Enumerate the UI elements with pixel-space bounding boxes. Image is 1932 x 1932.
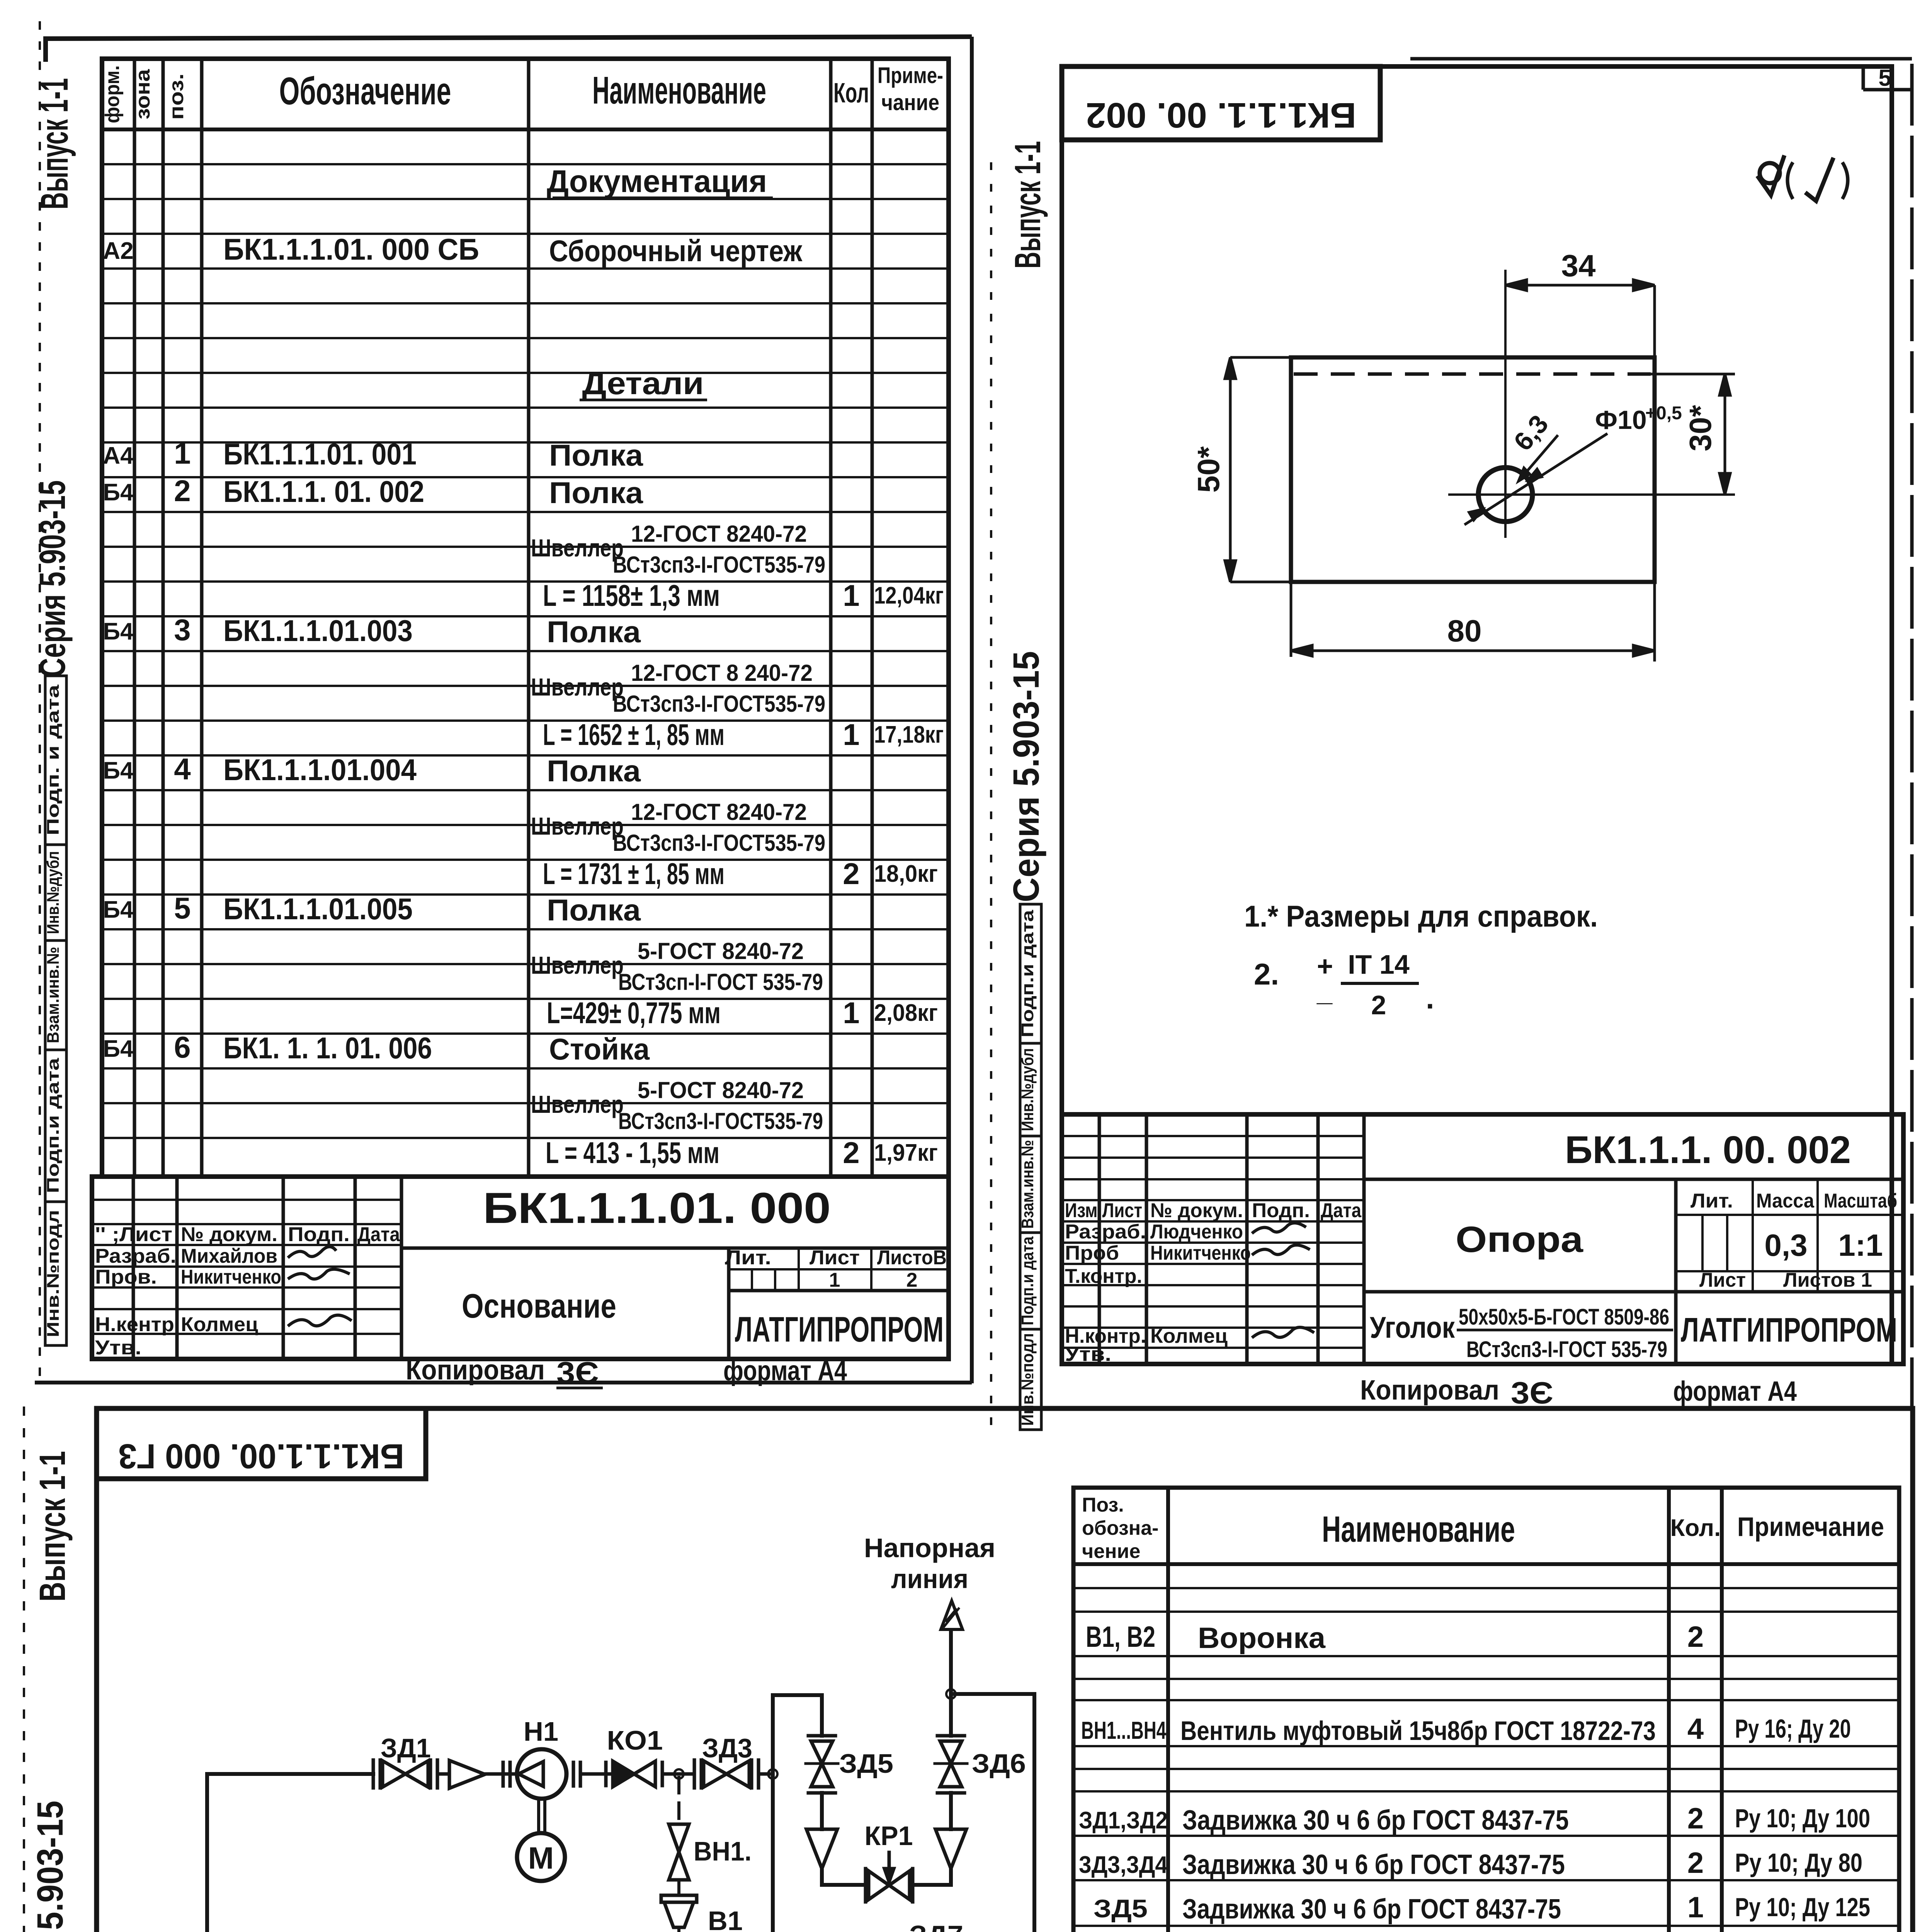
wire VN1 dashed drop — [677, 1777, 680, 1824]
svg-text:Подп. и дата: Подп. и дата — [44, 684, 63, 835]
svg-text:Взам.инв.№: Взам.инв.№ — [1018, 1140, 1037, 1229]
valve VN1 vertical — [669, 1824, 689, 1880]
svg-text:Швеллер: Швеллер — [531, 534, 624, 562]
svg-text:Ру 10; Ду 100: Ру 10; Ду 100 — [1735, 1804, 1870, 1833]
svg-text:L = 1158± 1,3 мм: L = 1158± 1,3 мм — [543, 578, 720, 612]
wire ZD1 to cone — [437, 1772, 449, 1776]
control valve KR1 — [866, 1852, 913, 1902]
svg-text:БК1.1.1.01. 001: БК1.1.1.01. 001 — [223, 437, 417, 471]
svg-text:Кол.: Кол. — [1670, 1515, 1721, 1541]
svg-text:4: 4 — [1687, 1713, 1704, 1745]
svg-text:Уголок: Уголок — [1370, 1310, 1455, 1344]
valve ZD6 vertical — [935, 1736, 967, 1793]
valve ZD1 — [373, 1760, 437, 1788]
svg-text:_: _ — [1316, 976, 1333, 1007]
svg-text:5: 5 — [174, 891, 190, 925]
svg-text:Масштаб: Масштаб — [1824, 1190, 1897, 1212]
valve ZD5 vertical — [806, 1736, 838, 1793]
svg-text:Пров.: Пров. — [95, 1266, 157, 1288]
svg-text:Полка: Полка — [547, 615, 641, 649]
svg-text:ВСт3сп3-I-ГОСТ535-79: ВСт3сп3-I-ГОСТ535-79 — [613, 691, 825, 717]
svg-text:Изм Лист: Изм Лист — [1065, 1199, 1142, 1222]
SHEET1 — [32, 21, 972, 1390]
svg-text:Подп.и дата: Подп.и дата — [1018, 1236, 1037, 1325]
wire V1 drain dashed — [260, 1927, 679, 1932]
svg-text:Проб: Проб — [1065, 1242, 1119, 1264]
svg-text:Кол: Кол — [833, 78, 869, 109]
svg-text:ЗД5: ЗД5 — [1094, 1894, 1148, 1923]
svg-text:Напорная: Напорная — [864, 1533, 995, 1563]
svg-text:Колмец: Колмец — [1150, 1325, 1228, 1347]
svg-text:Приме-: Приме- — [878, 63, 943, 88]
svg-text:№ докум.: № докум. — [1150, 1199, 1243, 1222]
svg-text:2.: 2. — [1254, 957, 1279, 991]
sheet1 bottom outer line — [35, 1381, 972, 1384]
spec table rows content — [103, 164, 944, 1170]
svg-text:Масса: Масса — [1756, 1190, 1815, 1212]
margin label boxes — [45, 676, 66, 1345]
svg-text:Н1: Н1 — [524, 1716, 558, 1747]
svg-text:Детали: Детали — [582, 366, 704, 401]
svg-text:L = 1731 ± 1, 85 мм: L = 1731 ± 1, 85 мм — [543, 857, 724, 891]
sheet1 paper edge dashed — [39, 21, 41, 1387]
svg-text:№ докум.: № докум. — [181, 1223, 277, 1246]
svg-text:3Д3,3Д4: 3Д3,3Д4 — [1079, 1852, 1168, 1878]
svg-text:Задвижка 30 ч 6 бр ГОСТ 8437-: Задвижка 30 ч 6 бр ГОСТ 8437-75 — [1182, 1894, 1561, 1925]
svg-text:Выпуск 1-1: Выпуск 1-1 — [1007, 141, 1048, 269]
svg-text:L = 1652 ± 1, 85 мм: L = 1652 ± 1, 85 мм — [543, 718, 724, 752]
svg-text:обозна-: обозна- — [1082, 1517, 1158, 1539]
svg-text:Михайлов: Михайлов — [181, 1245, 277, 1267]
svg-text:Задвижка 30 ч 6 бр ГОСТ 8437-: Задвижка 30 ч 6 бр ГОСТ 8437-75 — [1182, 1849, 1565, 1880]
svg-text:3Є: 3Є — [1511, 1376, 1553, 1410]
svg-text:Сборочный чертеж: Сборочный чертеж — [549, 234, 803, 268]
discharge arrow — [941, 1601, 963, 1629]
svg-text:Наименование: Наименование — [1322, 1509, 1515, 1550]
svg-text:2: 2 — [1371, 990, 1386, 1020]
svg-text:Инв.№подл: Инв.№подл — [1018, 1333, 1037, 1426]
svg-text:Копировал: Копировал — [1360, 1375, 1499, 1406]
wire ZD5 branch to KR1 — [822, 1869, 866, 1885]
svg-text:Выпуск 1-1: Выпуск 1-1 — [32, 1451, 73, 1602]
svg-text:1.* Размеры для справок.: 1.* Размеры для справок. — [1244, 899, 1598, 933]
svg-text:2: 2 — [1687, 1847, 1704, 1879]
wire H1 suction horizontal — [207, 1772, 373, 1776]
svg-text:Наименование: Наименование — [592, 69, 766, 112]
svg-text:Выпуск 1-1: Выпуск 1-1 — [33, 78, 76, 209]
svg-text:БК1. 1. 1. 01. 006: БК1. 1. 1. 01. 006 — [223, 1031, 432, 1065]
wire cone to pump — [485, 1772, 517, 1776]
svg-text:Полка: Полка — [549, 476, 643, 510]
svg-text:Б4: Б4 — [103, 1036, 134, 1062]
svg-text:2: 2 — [843, 1136, 859, 1170]
wire top bracket to ZD5 — [773, 1695, 822, 1736]
sheet2 title texts — [1065, 1199, 1362, 1366]
svg-text:БК1.1.1.01.005: БК1.1.1.01.005 — [223, 892, 413, 926]
svg-text:2: 2 — [174, 474, 190, 508]
svg-text:5: 5 — [1878, 65, 1891, 91]
valve ZD3 — [694, 1760, 759, 1788]
svg-text:2: 2 — [1687, 1802, 1704, 1835]
svg-text:12-ГОСТ 8240-72: 12-ГОСТ 8240-72 — [631, 521, 807, 547]
svg-text:1: 1 — [1687, 1891, 1704, 1924]
svg-text:А4: А4 — [103, 442, 134, 469]
svg-text:Полка: Полка — [547, 754, 641, 788]
svg-text:ЗД1,ЗД2: ЗД1,ЗД2 — [1079, 1807, 1168, 1834]
cone reducer H1 — [449, 1760, 485, 1788]
wire ZD6 up to node n3 — [949, 1694, 953, 1736]
svg-text:ВСт3сп-I-ГОСТ 535-79: ВСт3сп-I-ГОСТ 535-79 — [618, 969, 823, 995]
svg-text:18,0кг: 18,0кг — [874, 861, 938, 887]
svg-text:БК1.1.1.01.004: БК1.1.1.01.004 — [223, 753, 417, 787]
svg-text:ЗД1: ЗД1 — [381, 1733, 431, 1763]
svg-text:Лит.: Лит. — [725, 1247, 771, 1269]
svg-text:30*: 30* — [1683, 405, 1718, 451]
cone down left — [806, 1829, 837, 1869]
svg-text:Разраб.: Разраб. — [1065, 1221, 1146, 1243]
svg-text:Инв.№дубл: Инв.№дубл — [1018, 1048, 1037, 1131]
svg-text:БК1.1.1. 00. 002: БК1.1.1. 00. 002 — [1086, 95, 1356, 135]
svg-text:Дата: Дата — [357, 1223, 400, 1246]
wire KO1 to ZD3 — [662, 1772, 694, 1776]
svg-text:50х50х5-Б-ГОСТ 8509-86: 50х50х5-Б-ГОСТ 8509-86 — [1459, 1304, 1669, 1330]
svg-text:Ру 16; Ду 20: Ру 16; Ду 20 — [1735, 1714, 1851, 1743]
signatures sheet2 — [1252, 1223, 1314, 1338]
svg-text:М: М — [528, 1841, 554, 1875]
svg-text:1,97кг: 1,97кг — [874, 1139, 938, 1166]
sheet2 page edge top line — [1410, 57, 1912, 61]
hole centerlines — [1504, 270, 1507, 538]
sheet2 top-left stamp box — [1062, 66, 1380, 140]
svg-text:IT 14: IT 14 — [1348, 949, 1410, 980]
sheet3 top-left stamp box — [97, 1408, 426, 1479]
sheet3 paper edge dashed — [23, 1406, 25, 1932]
svg-text:Б4: Б4 — [103, 757, 134, 784]
svg-text:2,08кг: 2,08кг — [874, 1000, 938, 1026]
svg-text:БК1.1.1.01. 000: БК1.1.1.01. 000 — [483, 1184, 831, 1232]
svg-text:БК1.1.1.01.003: БК1.1.1.01.003 — [223, 614, 413, 648]
svg-text:Инв.№дубл: Инв.№дубл — [44, 851, 63, 934]
svg-text:ВСт3сп3-I-ГОСТ535-79: ВСт3сп3-I-ГОСТ535-79 — [613, 830, 825, 856]
svg-text:Лист: Лист — [1699, 1269, 1746, 1291]
svg-text:Никитченко: Никитченко — [1150, 1242, 1251, 1264]
Детали underline — [580, 399, 707, 401]
svg-text:Дата: Дата — [1321, 1199, 1362, 1222]
svg-text:Разраб.: Разраб. — [95, 1245, 176, 1267]
svg-text:4: 4 — [174, 752, 190, 786]
svg-text:Полка: Полка — [549, 438, 643, 472]
svg-text:ВСт3сп3-I-ГОСТ535-79: ВСт3сп3-I-ГОСТ535-79 — [618, 1108, 823, 1134]
svg-text:Основание: Основание — [462, 1287, 616, 1325]
svg-text:12-ГОСТ 8240-72: 12-ГОСТ 8240-72 — [631, 799, 807, 825]
leader 6,3 — [1519, 435, 1558, 481]
svg-text:Утв.: Утв. — [1065, 1343, 1111, 1366]
SHEET3 — [24, 1406, 1926, 1932]
wire KR1 to right cone — [913, 1869, 951, 1885]
svg-text:.: . — [1426, 981, 1434, 1015]
svg-text:Серия 5.903-15: Серия 5.903-15 — [1006, 651, 1047, 902]
svg-text:ЛАТГИПРОПРОМ: ЛАТГИПРОПРОМ — [1681, 1311, 1897, 1349]
svg-text:Подп.и дата: Подп.и дата — [1018, 910, 1037, 1037]
svg-text:Подп.и дата: Подп.и дата — [44, 1058, 63, 1193]
sheet1 right frame line — [970, 37, 974, 1383]
wire suction main vertical — [205, 1774, 209, 1932]
svg-text:Людченко: Людченко — [1150, 1221, 1243, 1243]
wire trunk vertical — [771, 1695, 775, 1932]
svg-text:Швеллер: Швеллер — [531, 951, 624, 979]
check valve KO1 — [606, 1761, 662, 1787]
SCHEMATIC — [144, 1533, 1034, 1932]
svg-text:1: 1 — [843, 718, 859, 752]
svg-text:поз.: поз. — [165, 73, 188, 120]
svg-text:Колмец: Колмец — [181, 1313, 258, 1336]
svg-text:Воронка: Воронка — [1198, 1622, 1326, 1655]
spec table column lines — [134, 59, 872, 1177]
svg-text:1:1: 1:1 — [1838, 1228, 1883, 1262]
svg-text:Инв.№подл: Инв.№подл — [44, 1210, 63, 1337]
svg-text:А2: А2 — [103, 238, 133, 264]
sheet1 top frame line — [46, 37, 972, 62]
svg-text:Опора: Опора — [1456, 1219, 1583, 1260]
node n1 (to VN1) — [674, 1769, 684, 1779]
svg-text:БК1.1.1. 01. 002: БК1.1.1. 01. 002 — [223, 474, 424, 509]
svg-text:Подп.: Подп. — [1252, 1199, 1310, 1222]
svg-text:12-ГОСТ 8 240-72: 12-ГОСТ 8 240-72 — [631, 660, 813, 686]
dim 80 — [1291, 582, 1655, 662]
svg-text:Никитченко: Никитченко — [181, 1266, 281, 1288]
wire VN1 to funnel — [677, 1880, 680, 1895]
hole circle — [1478, 468, 1532, 522]
svg-text:ЗД5: ЗД5 — [839, 1748, 893, 1779]
svg-text:Примечание: Примечание — [1737, 1512, 1884, 1542]
svg-text:Вентиль муфтовый 15ч8бр ГОСТ 1: Вентиль муфтовый 15ч8бр ГОСТ 18722-73 — [1180, 1716, 1656, 1746]
svg-text:В1, В2: В1, В2 — [1086, 1621, 1155, 1653]
pump H1 flange left — [502, 1762, 505, 1786]
sheet1 title texts — [95, 1223, 400, 1359]
wire discharge up — [949, 1630, 953, 1694]
pump H1 flange right — [572, 1762, 575, 1786]
shaft H1-M — [537, 1799, 540, 1833]
wire pump H1 to KO1 — [580, 1772, 613, 1776]
pump H1 — [517, 1749, 566, 1799]
svg-text:чение: чение — [1082, 1540, 1140, 1563]
roughness mark top right — [1757, 155, 1848, 201]
sheet number box 5 — [1863, 66, 1912, 90]
spec table header bottom — [102, 128, 949, 131]
sheet2 title block — [1062, 1114, 1903, 1364]
svg-text:КО1: КО1 — [607, 1725, 663, 1755]
svg-text:Стойка: Стойка — [549, 1032, 650, 1066]
svg-text:Обозначение: Обозначение — [279, 70, 451, 113]
SHEET2 — [991, 59, 1912, 1430]
sheet2 paper edge dashed — [990, 162, 992, 1426]
svg-text:зона: зона — [132, 69, 154, 119]
svg-text:Швеллер: Швеллер — [531, 812, 624, 840]
svg-text:80: 80 — [1447, 614, 1482, 648]
svg-text:Ру 10; Ду 125: Ру 10; Ду 125 — [1735, 1893, 1870, 1922]
svg-text:1: 1 — [843, 578, 859, 612]
svg-text:Швеллер: Швеллер — [531, 1090, 624, 1118]
svg-text:'' ;Лист: '' ;Лист — [95, 1223, 172, 1246]
svg-text:5-ГОСТ 8240-72: 5-ГОСТ 8240-72 — [638, 938, 804, 964]
sheet3 frame — [97, 1408, 1913, 1932]
svg-text:Подп.: Подп. — [288, 1223, 350, 1246]
spec table outer border — [102, 59, 949, 1177]
svg-text:50*: 50* — [1191, 446, 1226, 493]
dim 50* — [1225, 357, 1291, 582]
svg-text:ЛистоВ: ЛистоВ — [877, 1247, 947, 1269]
svg-text:КР1: КР1 — [865, 1821, 913, 1851]
svg-text:1: 1 — [829, 1269, 840, 1291]
svg-text:ЗД3: ЗД3 — [702, 1733, 752, 1763]
node n3 — [946, 1689, 956, 1699]
svg-text:линия: линия — [891, 1564, 968, 1594]
svg-text:ВН1.: ВН1. — [694, 1836, 752, 1866]
svg-text:Серия 5.903-15: Серия 5.903-15 — [30, 1801, 71, 1932]
svg-text:Поз.: Поз. — [1082, 1494, 1124, 1516]
svg-text:Лит.: Лит. — [1690, 1190, 1733, 1212]
svg-text:0,3: 0,3 — [1764, 1228, 1807, 1262]
svg-text:3Є: 3Є — [556, 1355, 599, 1390]
wire ZD5 to cone — [820, 1793, 824, 1829]
spec table row lines — [102, 164, 949, 1138]
sheet2 frame — [1062, 66, 1892, 1364]
svg-text:БК1.1.1.00. 000 Г3: БК1.1.1.00. 000 Г3 — [118, 1437, 404, 1475]
svg-text:ВСт3сп3-I-ГОСТ 535-79: ВСт3сп3-I-ГОСТ 535-79 — [1466, 1337, 1667, 1362]
svg-text:Серия 5.903-15: Серия 5.903-15 — [32, 480, 73, 677]
sheet2 outer right line — [1910, 64, 1914, 1406]
wire right bypass top — [951, 1694, 1034, 1932]
svg-text:Копировал: Копировал — [406, 1355, 545, 1386]
svg-text:1: 1 — [843, 996, 859, 1030]
dim 34 — [1505, 280, 1655, 357]
svg-text:В1: В1 — [708, 1906, 743, 1932]
svg-text:L = 413 - 1,55 мм: L = 413 - 1,55 мм — [546, 1136, 719, 1170]
svg-text:Листов 1: Листов 1 — [1783, 1269, 1872, 1291]
svg-text:1: 1 — [174, 436, 190, 470]
svg-text:34: 34 — [1561, 248, 1596, 283]
wire ZD3 to trunk — [759, 1772, 773, 1776]
svg-text:чание: чание — [881, 90, 939, 115]
svg-text:ЗД6: ЗД6 — [972, 1748, 1026, 1779]
svg-text:+0,5: +0,5 — [1645, 403, 1682, 423]
Документация underline — [553, 197, 773, 199]
svg-text:12,04кг: 12,04кг — [874, 582, 944, 609]
svg-text:формат А4: формат А4 — [1673, 1376, 1797, 1407]
svg-text:Б4: Б4 — [103, 479, 134, 506]
part drawing: plate rectangle — [1291, 357, 1655, 582]
cone down right — [935, 1829, 966, 1869]
svg-text:L=429± 0,775 мм: L=429± 0,775 мм — [547, 996, 721, 1030]
svg-text:Полка: Полка — [547, 893, 641, 927]
svg-text:БК1.1.1. 00. 002: БК1.1.1. 00. 002 — [1565, 1128, 1851, 1172]
svg-text:17,18кг: 17,18кг — [874, 721, 944, 748]
sheet2 margin label boxes — [1020, 904, 1041, 1430]
svg-text:форм.: форм. — [101, 65, 124, 123]
leader ф10 — [1464, 434, 1607, 525]
svg-text:Ру 10; Ду 80: Ру 10; Ду 80 — [1735, 1848, 1862, 1878]
svg-text:Лист: Лист — [810, 1247, 860, 1269]
svg-text:ВСт3сп3-I-ГОСТ535-79: ВСт3сп3-I-ГОСТ535-79 — [613, 552, 825, 578]
svg-text:Б4: Б4 — [103, 896, 134, 923]
svg-text:Документация: Документация — [547, 164, 767, 199]
signatures sheet1 — [288, 1247, 352, 1326]
funnel V1 — [661, 1895, 697, 1927]
motor M1 — [517, 1833, 565, 1881]
svg-text:2: 2 — [1687, 1621, 1704, 1653]
sheet1 title block — [92, 1177, 949, 1359]
plate dashed bend line — [1294, 372, 1651, 376]
dim 30* — [1651, 374, 1735, 495]
wire cone to ZD6 — [949, 1793, 953, 1829]
parts table rows — [1077, 1621, 1874, 1932]
svg-text:5-ГОСТ 8240-72: 5-ГОСТ 8240-72 — [638, 1077, 804, 1103]
svg-text:2: 2 — [906, 1269, 918, 1291]
svg-text:2: 2 — [843, 857, 859, 891]
svg-text:ЗД7: ЗД7 — [909, 1920, 963, 1932]
svg-text:формат А4: формат А4 — [723, 1355, 847, 1386]
svg-text:БК1.1.1.01. 000 СБ: БК1.1.1.01. 000 СБ — [223, 232, 479, 266]
svg-text:Швеллер: Швеллер — [531, 673, 624, 701]
svg-text:Утв.: Утв. — [95, 1337, 141, 1359]
margin label texts — [44, 684, 63, 1337]
svg-text:Взам.инв.№: Взам.инв.№ — [44, 947, 63, 1043]
svg-text:Задвижка 30 ч 6 бр ГОСТ 8437-: Задвижка 30 ч 6 бр ГОСТ 8437-75 — [1182, 1805, 1569, 1836]
parts table — [1073, 1488, 1899, 1932]
svg-text:6: 6 — [174, 1030, 190, 1064]
svg-text:ВН1...ВН4: ВН1...ВН4 — [1081, 1716, 1166, 1744]
svg-text:Н.кентр.: Н.кентр. — [95, 1313, 180, 1336]
svg-text:Т.контр.: Т.контр. — [1065, 1265, 1142, 1287]
svg-text:ЛАТГИПРОПРОМ: ЛАТГИПРОПРОМ — [735, 1310, 944, 1349]
svg-text:Ф10: Ф10 — [1595, 405, 1647, 435]
svg-text:3: 3 — [174, 613, 190, 647]
node n2 trunk/H1 — [768, 1769, 777, 1779]
svg-text:Б4: Б4 — [103, 618, 134, 645]
